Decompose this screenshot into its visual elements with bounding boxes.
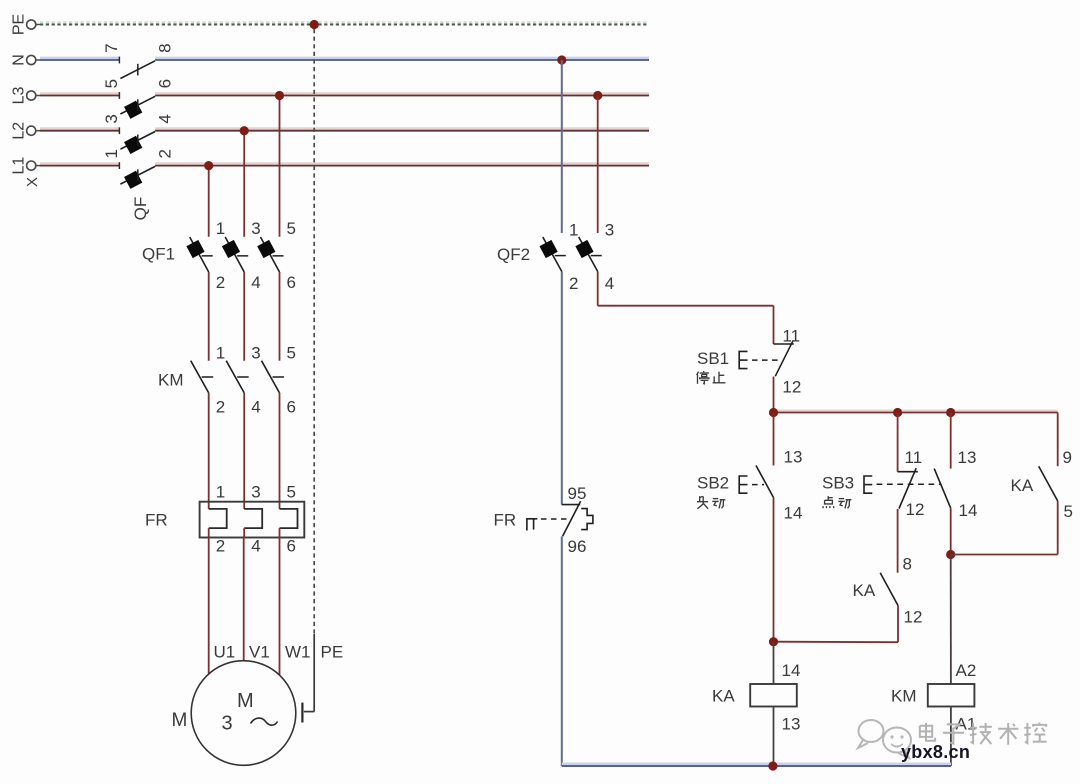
svg-text:3: 3 [251,483,260,502]
svg-text:PE: PE [11,14,28,35]
svg-text:8: 8 [156,43,175,52]
svg-text:5: 5 [102,79,121,88]
svg-text:4: 4 [156,114,175,123]
svg-text:U1: U1 [214,643,236,662]
svg-text:12: 12 [782,378,801,397]
svg-text:A2: A2 [956,661,977,680]
svg-text:2: 2 [216,273,225,292]
svg-text:L1: L1 [11,157,28,175]
svg-text:7: 7 [102,43,121,52]
svg-text:6: 6 [287,273,296,292]
svg-text:13: 13 [958,448,977,467]
svg-text:KA: KA [1011,476,1034,495]
svg-text:QF1: QF1 [142,245,175,264]
svg-text:4: 4 [251,273,260,292]
svg-text:4: 4 [251,398,260,417]
svg-text:X: X [24,177,41,187]
svg-text:14: 14 [784,504,803,523]
svg-text:6: 6 [287,398,296,417]
svg-text:KA: KA [712,687,735,706]
svg-text:SB3: SB3 [822,474,854,493]
svg-text:2: 2 [216,398,225,417]
svg-text:11: 11 [905,448,923,467]
svg-text:M: M [237,690,254,712]
svg-text:4: 4 [605,274,614,293]
svg-text:FR: FR [494,511,517,530]
svg-text:PE: PE [321,643,344,662]
svg-text:ybx8.cn: ybx8.cn [901,742,970,762]
svg-text:V1: V1 [249,643,270,662]
svg-text:96: 96 [568,537,587,556]
svg-text:5: 5 [287,219,296,238]
svg-text:6: 6 [287,537,296,556]
svg-text:11: 11 [782,327,800,346]
svg-text:W1: W1 [285,643,311,662]
svg-text:3: 3 [102,114,121,123]
svg-text:1: 1 [216,344,225,363]
svg-text:L3: L3 [11,87,28,105]
svg-text:1: 1 [102,149,121,158]
svg-text:3: 3 [251,219,260,238]
svg-text:9: 9 [1063,448,1072,467]
svg-text:KM: KM [891,687,917,706]
svg-text:3: 3 [251,344,260,363]
svg-text:13: 13 [784,448,803,467]
svg-text:2: 2 [216,537,225,556]
svg-text:14: 14 [782,661,801,680]
svg-text:12: 12 [906,500,925,519]
svg-text:8: 8 [903,555,912,574]
svg-text:6: 6 [156,79,175,88]
svg-text:3: 3 [222,713,233,735]
svg-text:KM: KM [158,371,184,390]
svg-text:5: 5 [1064,502,1073,521]
svg-text:5: 5 [287,483,296,502]
svg-text:M: M [172,710,188,731]
svg-text:12: 12 [904,608,923,627]
svg-text:KA: KA [853,581,876,600]
svg-text:1: 1 [216,219,225,238]
svg-text:L2: L2 [11,122,28,140]
svg-text:14: 14 [959,501,978,520]
svg-text:95: 95 [568,484,587,503]
svg-text:2: 2 [569,274,578,293]
svg-text:1: 1 [569,221,578,240]
svg-text:2: 2 [156,149,175,158]
svg-text:QF2: QF2 [497,245,530,264]
svg-text:1: 1 [216,483,225,502]
svg-text:5: 5 [287,344,296,363]
svg-text:QF: QF [131,197,150,221]
svg-text:FR: FR [145,511,168,530]
svg-text:13: 13 [782,715,801,734]
svg-text:SB2: SB2 [697,474,729,493]
svg-text:4: 4 [251,537,260,556]
svg-text:N: N [11,54,28,66]
svg-text:3: 3 [605,221,614,240]
svg-text:SB1: SB1 [697,349,729,368]
